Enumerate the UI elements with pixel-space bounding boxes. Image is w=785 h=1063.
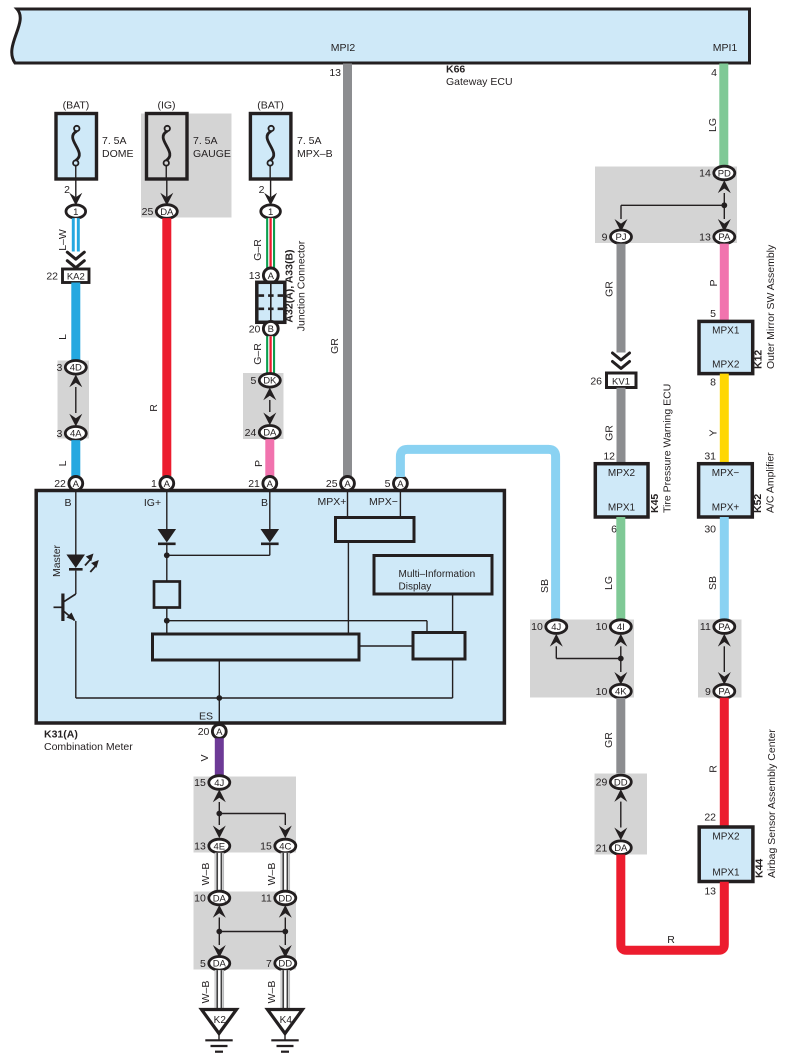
pin 20 A meter bottom <box>212 725 226 739</box>
double arrow DD to DA <box>614 789 627 802</box>
svg-text:4A: 4A <box>70 429 82 440</box>
svg-text:9: 9 <box>602 231 608 243</box>
arrow up DD <box>279 905 292 918</box>
svg-text:SB: SB <box>707 576 719 590</box>
svg-text:13: 13 <box>704 886 716 898</box>
wire GR 4K to DD <box>616 698 625 774</box>
svg-text:B: B <box>261 497 268 509</box>
pin 2 dome fuse <box>75 179 77 197</box>
svg-text:G–R: G–R <box>252 239 264 261</box>
arrow down 4C <box>279 826 292 839</box>
svg-text:SB: SB <box>539 579 551 593</box>
svg-text:5: 5 <box>710 308 716 320</box>
svg-text:A: A <box>73 479 80 490</box>
diode D2 <box>261 529 280 543</box>
pin 13 A junction <box>263 268 278 283</box>
svg-text:DA: DA <box>213 893 227 904</box>
wire GR MPI2 to combination meter MPX+ <box>343 64 352 477</box>
wire 4J branch <box>219 813 285 815</box>
wire R gauge to meter IG+ <box>162 218 171 476</box>
connector 13 PA <box>714 230 735 244</box>
svg-text:A/C Amplifier: A/C Amplifier <box>765 452 777 513</box>
wire W-B 4C <box>281 853 289 892</box>
svg-text:Tire Pressure Warning ECU: Tire Pressure Warning ECU <box>662 384 674 513</box>
svg-text:R: R <box>708 765 720 773</box>
arrow up 4J right <box>550 634 563 647</box>
svg-text:Master: Master <box>51 544 63 577</box>
wire meter pin1 to diode <box>166 490 168 529</box>
wire resistor to node2 <box>166 608 168 635</box>
arrow down 4K <box>614 672 627 685</box>
svg-text:PA: PA <box>718 232 731 243</box>
wire GR PJ to KV1 <box>617 244 626 353</box>
svg-text:MPX+: MPX+ <box>712 503 740 514</box>
svg-text:22: 22 <box>54 478 66 490</box>
svg-text:V: V <box>199 754 211 761</box>
pin 2 mpx-b fuse <box>270 179 272 197</box>
node 4J branch <box>216 811 222 817</box>
svg-text:Combination Meter: Combination Meter <box>44 741 133 753</box>
connector 10 4I <box>610 620 631 634</box>
arrow down PA <box>718 219 731 232</box>
svg-text:20: 20 <box>249 323 261 335</box>
wire L upper <box>71 283 80 362</box>
svg-text:4I: 4I <box>617 622 625 633</box>
connector 24 DA <box>259 426 280 440</box>
wire meter pin21 to diode2 <box>269 490 271 529</box>
svg-text:L: L <box>57 460 69 466</box>
svg-text:11: 11 <box>261 893 272 905</box>
svg-text:A: A <box>216 727 223 738</box>
svg-text:MPX−: MPX− <box>369 496 398 508</box>
svg-text:DOME: DOME <box>102 148 134 160</box>
sensor K44 Airbag Sensor Assembly Center <box>699 827 753 882</box>
svg-text:DD: DD <box>278 959 292 970</box>
wire transceiver down <box>347 542 349 635</box>
svg-text:4D: 4D <box>70 363 82 374</box>
wire W-B to K4 <box>281 970 289 1009</box>
svg-text:15: 15 <box>194 777 206 789</box>
svg-text:LG: LG <box>707 118 719 132</box>
svg-text:DD: DD <box>614 777 628 788</box>
svg-text:25: 25 <box>142 206 154 218</box>
svg-text:31: 31 <box>704 451 716 463</box>
svg-text:K12: K12 <box>753 350 765 369</box>
svg-text:K2: K2 <box>214 1015 227 1026</box>
arrow down DD2 <box>279 945 292 958</box>
arrow down 4A <box>69 414 82 427</box>
shade box 4J-4E-4C <box>194 777 297 853</box>
arrow up 4J <box>213 790 226 803</box>
svg-text:P: P <box>253 460 265 467</box>
connector 15 4C <box>275 839 296 853</box>
connector 7 DD <box>275 957 296 971</box>
arrow down 4E <box>218 814 220 826</box>
svg-text:W–B: W–B <box>200 981 212 1004</box>
svg-text:K31(A): K31(A) <box>44 729 78 741</box>
svg-text:10: 10 <box>596 621 608 633</box>
svg-text:7. 5A: 7. 5A <box>297 135 322 147</box>
multi-information display box <box>374 556 492 595</box>
wire LG MPI1 to connector PD <box>719 64 728 167</box>
double chevron KA2 <box>67 252 84 268</box>
svg-text:(BAT): (BAT) <box>257 100 284 112</box>
shade box DD-DA right <box>595 774 648 855</box>
svg-text:4J: 4J <box>214 778 224 789</box>
svg-text:2: 2 <box>259 184 265 196</box>
amplifier K52 A/C Amplifier <box>699 464 753 517</box>
wire V <box>215 738 224 776</box>
double chevron above KV1 <box>613 353 630 369</box>
wire LG K45 to 4I <box>616 517 625 620</box>
node ES <box>216 695 222 701</box>
svg-text:4E: 4E <box>213 841 225 852</box>
svg-text:GR: GR <box>329 338 341 354</box>
ECU bus K66 Gateway ECU band <box>12 9 750 63</box>
svg-text:13: 13 <box>249 270 261 282</box>
svg-text:7: 7 <box>266 958 272 970</box>
svg-text:PA: PA <box>718 687 731 698</box>
svg-text:25: 25 <box>326 478 338 490</box>
svg-text:DA: DA <box>614 843 628 854</box>
svg-text:IG+: IG+ <box>144 497 161 509</box>
wire node to diode2 link <box>167 554 270 556</box>
pin 25 A meter <box>341 477 355 491</box>
wire L lower <box>71 440 80 476</box>
svg-text:MPX+: MPX+ <box>318 496 347 508</box>
svg-text:MPX1: MPX1 <box>712 326 740 337</box>
svg-text:7. 5A: 7. 5A <box>193 135 218 147</box>
svg-text:24: 24 <box>245 427 257 439</box>
svg-text:4K: 4K <box>615 687 627 698</box>
wire wide box down to ES node <box>218 660 220 725</box>
svg-text:MPX1: MPX1 <box>712 868 740 879</box>
svg-text:R: R <box>667 934 675 946</box>
arrow up 4I <box>614 634 627 647</box>
junction connector A32(A) A33(B) <box>257 282 285 322</box>
svg-text:1: 1 <box>268 207 273 218</box>
connector 11 DD <box>275 891 296 905</box>
svg-text:11: 11 <box>700 621 711 633</box>
connector 14 PD <box>714 166 735 180</box>
wire G-R upper <box>266 218 275 268</box>
shade box PD-PJ-PA <box>595 167 737 244</box>
wire MID down <box>452 594 454 633</box>
svg-text:GR: GR <box>604 425 616 441</box>
svg-text:4J: 4J <box>551 622 561 633</box>
svg-text:13: 13 <box>699 231 711 243</box>
LED Master <box>66 555 85 569</box>
transistor Q1 <box>63 594 76 602</box>
wire meter pin22 to LED <box>75 490 77 554</box>
svg-text:5: 5 <box>200 958 206 970</box>
svg-text:K44: K44 <box>754 859 766 878</box>
transceiver box internal <box>336 518 415 542</box>
svg-text:K45: K45 <box>649 494 661 513</box>
shade box DA-DD <box>194 892 297 970</box>
svg-text:2: 2 <box>64 184 70 196</box>
connector 10 DA <box>209 891 230 905</box>
connector 21 DA <box>610 841 631 855</box>
connector 5 DK <box>259 374 280 388</box>
switch K12 Outer Mirror SW Assembly <box>699 321 753 373</box>
wire G-R lower <box>266 336 275 373</box>
svg-text:K52: K52 <box>752 494 764 513</box>
node DA ground link <box>216 929 222 935</box>
wire W-B to K2 <box>215 970 223 1009</box>
wire SB K52 to PA <box>720 517 729 620</box>
wire L-W <box>72 218 80 251</box>
wire GR KV1 to K45 <box>617 388 626 463</box>
svg-text:10: 10 <box>531 621 543 633</box>
svg-text:20: 20 <box>198 726 210 738</box>
connector 1 mpx-b <box>261 205 281 218</box>
ground K2 <box>202 1010 237 1034</box>
svg-text:PD: PD <box>718 168 731 179</box>
svg-text:MPX–B: MPX–B <box>297 148 333 160</box>
resistor box internal <box>154 582 180 608</box>
connector 9 PA <box>714 684 735 698</box>
wire ES horizontal <box>76 697 453 699</box>
svg-text:LG: LG <box>603 576 615 590</box>
svg-text:KV1: KV1 <box>612 376 630 387</box>
node PD branch <box>721 202 727 208</box>
svg-text:W–B: W–B <box>266 863 278 886</box>
svg-text:DK: DK <box>263 376 277 387</box>
shade box PA-PA <box>698 620 742 698</box>
svg-text:10: 10 <box>194 893 206 905</box>
svg-text:21: 21 <box>248 478 260 490</box>
svg-text:L: L <box>57 334 69 340</box>
wire ground link <box>219 931 285 933</box>
svg-text:G–R: G–R <box>252 343 264 365</box>
pin 5 A meter <box>394 477 408 491</box>
connector KA2 <box>63 269 90 283</box>
svg-text:10: 10 <box>596 686 608 698</box>
double arrow PA to PA <box>718 634 731 647</box>
logic box small internal <box>413 633 465 660</box>
fuse 7.5A MPX-B <box>250 114 291 180</box>
wire pin25 down <box>347 490 349 517</box>
ground K4 <box>268 1010 303 1034</box>
svg-text:21: 21 <box>596 842 608 854</box>
svg-text:22: 22 <box>704 812 716 824</box>
svg-text:Gateway ECU: Gateway ECU <box>446 76 513 88</box>
node under resistor <box>164 618 170 624</box>
shade box gauge fuse <box>141 114 232 218</box>
svg-text:A: A <box>397 479 404 490</box>
pin 20 B junction <box>263 321 278 336</box>
svg-text:MPX−: MPX− <box>712 468 740 479</box>
svg-text:22: 22 <box>46 271 58 283</box>
diode D1 <box>158 529 177 543</box>
svg-text:GR: GR <box>604 281 616 297</box>
svg-text:K4: K4 <box>280 1015 293 1026</box>
svg-text:7. 5A: 7. 5A <box>102 135 127 147</box>
svg-text:ES: ES <box>199 711 213 723</box>
node DD ground link <box>282 929 288 935</box>
svg-text:B: B <box>64 497 71 509</box>
connector 15 4J <box>209 776 230 790</box>
svg-text:29: 29 <box>596 777 608 789</box>
svg-text:15: 15 <box>260 841 272 853</box>
svg-text:MPI2: MPI2 <box>331 42 356 54</box>
arrow up PD <box>718 180 731 193</box>
wire 4J-4I link <box>556 658 621 660</box>
svg-text:R: R <box>148 404 160 412</box>
svg-text:Y: Y <box>708 429 720 436</box>
connector 29 DD <box>610 775 631 789</box>
connector 4D <box>65 361 86 375</box>
svg-text:A: A <box>267 479 274 490</box>
svg-text:(IG): (IG) <box>157 100 175 112</box>
svg-text:9: 9 <box>705 686 711 698</box>
svg-text:1: 1 <box>151 478 157 490</box>
shade box DK-DA <box>243 373 284 439</box>
svg-text:26: 26 <box>590 376 602 388</box>
svg-text:Display: Display <box>399 582 432 593</box>
double arrow DK to DA <box>263 388 276 401</box>
svg-text:13: 13 <box>329 67 341 79</box>
svg-text:B: B <box>268 324 274 335</box>
connector 5 DA <box>209 957 230 971</box>
connector KV1 <box>607 373 637 388</box>
arrow into connector 1 dome <box>69 193 82 206</box>
wire pin5 down <box>399 490 401 517</box>
arrow up DA <box>213 905 226 918</box>
svg-text:PA: PA <box>718 622 731 633</box>
wire between logic boxes <box>359 645 413 647</box>
wire node2 horizontal <box>167 620 427 622</box>
pin 22 A meter <box>69 477 83 491</box>
connector 1 dome <box>66 205 86 218</box>
svg-text:DA: DA <box>263 428 277 439</box>
pin 21 A meter <box>263 477 277 491</box>
svg-text:DD: DD <box>278 893 292 904</box>
svg-text:30: 30 <box>704 524 716 536</box>
arrow up 4D <box>69 375 82 388</box>
connector 13 4E <box>209 839 230 853</box>
svg-text:DA: DA <box>213 959 227 970</box>
arrow down PJ <box>615 219 628 232</box>
svg-text:GR: GR <box>603 732 615 748</box>
svg-text:4C: 4C <box>279 841 291 852</box>
wire R U-link DA to K44 <box>621 855 725 951</box>
wire W-B 4E <box>215 853 223 892</box>
svg-text:A32(A), A33(B): A32(A), A33(B) <box>284 249 296 322</box>
connector 9 PJ <box>611 230 632 244</box>
wire LED to transistor <box>75 571 77 594</box>
svg-text:P: P <box>708 279 720 286</box>
svg-text:5: 5 <box>250 375 256 387</box>
connector 4A <box>65 427 86 441</box>
wire Y K12 to K52 <box>720 374 729 463</box>
svg-text:PJ: PJ <box>615 232 626 243</box>
connector 11 PA <box>714 620 735 634</box>
arrow into connector 1 mpx-b <box>264 193 277 206</box>
lead gauge fuse <box>166 179 168 197</box>
svg-text:A: A <box>164 479 171 490</box>
wire diode2 to link <box>269 545 271 555</box>
ECU K45 Tire Pressure Warning ECU <box>595 464 648 517</box>
svg-text:GAUGE: GAUGE <box>193 148 231 160</box>
svg-text:Airbag Sensor Assembly Center: Airbag Sensor Assembly Center <box>766 729 778 878</box>
svg-text:A: A <box>344 479 351 490</box>
logic box wide internal <box>153 634 360 660</box>
fuse 7.5A DOME <box>56 114 97 180</box>
svg-text:(BAT): (BAT) <box>63 100 90 112</box>
connector 25 DA <box>156 205 177 219</box>
wire P PA to K12 <box>720 244 729 321</box>
svg-text:3: 3 <box>56 362 62 374</box>
svg-text:8: 8 <box>710 377 716 389</box>
svg-text:5: 5 <box>385 478 391 490</box>
svg-text:12: 12 <box>603 451 615 463</box>
svg-text:KA2: KA2 <box>67 272 85 283</box>
svg-text:Outer Mirror SW Assembly: Outer Mirror SW Assembly <box>765 244 777 369</box>
wire SB meter to 4J <box>400 449 555 619</box>
svg-text:4: 4 <box>711 67 717 79</box>
wire PD branch <box>621 204 724 206</box>
svg-text:3: 3 <box>56 428 62 440</box>
arrow down DA2 <box>213 945 226 958</box>
svg-text:L–W: L–W <box>57 229 69 251</box>
wire small box down <box>452 659 454 698</box>
svg-text:Multi–Information: Multi–Information <box>399 569 476 580</box>
shade box 4D-4A <box>58 361 90 439</box>
fuse 7.5A GAUGE <box>147 114 188 180</box>
svg-text:W–B: W–B <box>266 981 278 1004</box>
wire R PA to K44 <box>720 698 729 827</box>
wire diode1 to node <box>166 545 168 582</box>
arrow into connector DA gauge <box>160 193 173 206</box>
svg-text:K66: K66 <box>446 64 465 76</box>
svg-text:A: A <box>268 271 275 282</box>
shade box 4J-4I-4K <box>530 620 634 698</box>
node under diode1 <box>164 552 170 558</box>
wire P <box>265 439 274 476</box>
svg-text:6: 6 <box>611 524 617 536</box>
svg-text:1: 1 <box>73 207 78 218</box>
svg-text:MPX1: MPX1 <box>608 503 636 514</box>
node 4I <box>618 656 624 662</box>
svg-text:MPX2: MPX2 <box>712 360 740 371</box>
svg-text:Junction Connector: Junction Connector <box>296 240 308 331</box>
svg-text:MPX2: MPX2 <box>608 468 636 479</box>
wire transistor emitter down <box>75 621 77 698</box>
svg-text:14: 14 <box>699 168 711 180</box>
pin 1 A meter <box>160 477 174 491</box>
combination meter K31(A) box <box>36 491 504 724</box>
connector 10 4K <box>610 684 631 698</box>
svg-text:13: 13 <box>194 841 206 853</box>
svg-text:W–B: W–B <box>200 863 212 886</box>
svg-text:MPI1: MPI1 <box>713 42 738 54</box>
connector 10 4J right <box>546 620 567 634</box>
svg-text:DA: DA <box>160 207 174 218</box>
svg-text:MPX2: MPX2 <box>712 832 740 843</box>
